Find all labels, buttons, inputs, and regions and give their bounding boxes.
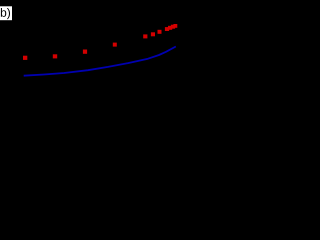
data point 5 xyxy=(143,34,147,38)
data point 4 xyxy=(113,43,117,47)
data point 3 xyxy=(83,50,87,54)
data point 6 xyxy=(151,32,155,36)
data point 11 xyxy=(173,24,177,28)
data point 7 xyxy=(158,30,162,34)
fit curve (blue) xyxy=(24,47,176,76)
data point 1 xyxy=(23,56,27,60)
panel label box xyxy=(0,6,12,20)
data point 2 xyxy=(53,54,57,58)
panel label text xyxy=(0,8,10,19)
data point 8 xyxy=(165,27,169,31)
data point 9 xyxy=(168,26,172,30)
data point 10 xyxy=(171,25,175,29)
